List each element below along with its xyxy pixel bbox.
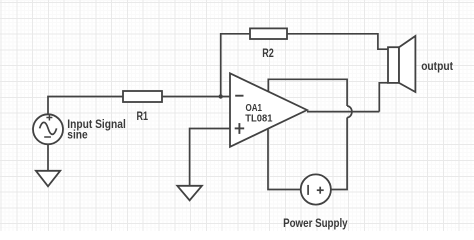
op-amp non-inverting pin mark [235,123,245,134]
power supply plus mark [317,187,324,194]
speaker body [388,47,399,83]
resistor R1 [123,91,162,102]
svg-text:R1: R1 [137,109,149,123]
ground under plus input [177,186,202,201]
svg-text:output: output [421,59,453,73]
op-amp OA1 [230,73,307,147]
svg-text:Power Supply: Power Supply [283,216,348,230]
voltage source sine waveform [40,122,57,134]
wire op-amp plus input to ground [190,129,230,186]
junction node at feedback tap [219,94,223,98]
wire hop over output wire [347,106,352,118]
svg-text:R2: R2 [262,46,274,60]
wire R1 to op-amp inverting input [162,96,230,98]
wire source to R1 [48,97,123,115]
power supply circle [301,174,331,204]
wire power rail down to supply [331,118,347,190]
wire op-amp output to speaker bottom terminal [307,111,379,113]
svg-text:TL081: TL081 [245,114,273,125]
resistor R2 [250,28,287,39]
svg-text:OA1: OA1 [246,103,263,114]
svg-text:sine: sine [67,128,88,142]
wire R2 to speaker top terminal [287,34,388,49]
speaker cone [399,36,415,92]
wire source to ground [47,144,49,171]
power supply negative bar [307,185,309,195]
wire op-amp V- pin to power supply negative [268,129,301,190]
voltage source minus mark [44,136,51,138]
ground under source [36,171,60,187]
voltage source plus mark [46,115,52,121]
op-amp inverting pin mark [235,95,243,97]
wire feedback riser to R2 [221,34,250,97]
voltage source V1 circle [33,114,63,144]
wire op-amp V+ pin to power supply positive [268,79,347,106]
wire speaker bottom riser [379,83,388,112]
